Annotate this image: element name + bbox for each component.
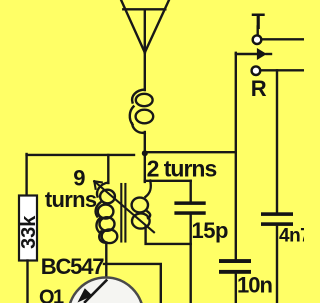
- svg-text:R: R: [251, 76, 267, 101]
- wire T out: [262, 38, 304, 40]
- wire 15p bottom lead to ground edge: [189, 214, 191, 303]
- wire 15p top lead: [189, 181, 191, 202]
- terminal T circle: [253, 35, 262, 44]
- transformer T1 secondary (2 turns): [132, 181, 151, 229]
- wire tank to 15p top: [145, 180, 191, 182]
- wire TR vertical rail: [235, 53, 237, 259]
- svg-text:2 turns: 2 turns: [147, 155, 217, 181]
- svg-text:BC547: BC547: [41, 254, 104, 279]
- wire R out: [261, 69, 304, 71]
- wire base rail east: [104, 264, 161, 303]
- svg-text:33k: 33k: [18, 215, 40, 249]
- wire right coil bottom lead: [146, 227, 191, 244]
- resistor R1 33k body: [19, 196, 37, 261]
- terminal R circle: [252, 66, 261, 75]
- transistor Q1 internals: [85, 281, 106, 303]
- transformer T1 core: [121, 184, 125, 242]
- wire base rail (33k to coil top): [27, 154, 134, 156]
- arrow to R terminal: [236, 53, 271, 55]
- svg-text:10n: 10n: [237, 273, 272, 298]
- wire coil bottom / base lead: [105, 243, 107, 282]
- node A junction dot: [142, 150, 148, 156]
- capacitor C3 4n7 plates: [261, 212, 293, 226]
- wire tank node to TR switch: [145, 151, 236, 153]
- antenna ANT1: [121, 0, 169, 53]
- transistor Q1 body: [68, 278, 143, 303]
- wire tank node down: [144, 152, 146, 182]
- variable tuning arrow across T1: [94, 181, 154, 232]
- wire coil to tank node: [144, 132, 146, 152]
- inductor L1 (antenna coupling coil): [130, 90, 153, 133]
- wire 33k top lead: [25, 154, 27, 196]
- svg-text:Q1: Q1: [39, 287, 64, 303]
- capacitor C2 10n plates: [219, 259, 251, 274]
- wire 10n bottom lead: [235, 274, 237, 303]
- wire left coil top lead: [107, 155, 109, 183]
- terminal T stub: [257, 27, 259, 35]
- svg-text:T: T: [252, 9, 266, 34]
- transformer T1 primary (9 turns): [96, 183, 118, 244]
- capacitor C1 15p plates: [174, 201, 205, 214]
- wire 4n bottom lead: [276, 226, 278, 303]
- wire 33k bottom lead: [26, 261, 28, 303]
- wire 4n top lead: [276, 70, 278, 212]
- svg-text:4n7: 4n7: [279, 226, 304, 247]
- svg-text:turns: turns: [45, 187, 97, 212]
- svg-text:15p: 15p: [192, 218, 228, 243]
- wire antenna feed: [144, 10, 146, 90]
